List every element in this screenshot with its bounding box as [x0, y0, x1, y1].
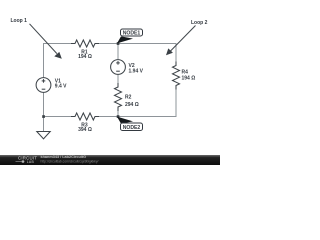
wire: right rail from R4 to bottom-right corner — [175, 87, 177, 118]
resistor R1 — [71, 40, 99, 47]
node NODE2 flag pointer — [117, 117, 133, 124]
junction dot at NODE1 — [117, 42, 120, 45]
voltage source V2 — [111, 60, 126, 75]
wire: middle branch R2 bottom to NODE2 junction — [117, 107, 119, 117]
node NODE2 label box — [121, 123, 143, 131]
svg-text:http://circuitlab.com/circuit/: http://circuitlab.com/circuit/cqe9bigkkk… — [41, 160, 99, 164]
CircuitLab logo — [16, 156, 38, 165]
wire: middle branch NODE1 junction down to V2 top — [117, 44, 119, 61]
wire: bottom rail from ground junction to R3 — [44, 116, 76, 118]
wire: right rail from top-right corner to R4 — [175, 43, 177, 66]
wire: left rail from V1 bottom to ground — [43, 93, 45, 132]
svg-text:NODE1: NODE1 — [123, 31, 141, 37]
svg-text:194 Ω: 194 Ω — [78, 54, 92, 60]
svg-text:Loop 1: Loop 1 — [11, 18, 28, 24]
svg-text:LAB: LAB — [27, 160, 35, 164]
svg-text:NODE2: NODE2 — [123, 125, 141, 131]
svg-text:R2: R2 — [125, 95, 132, 101]
junction dot at NODE2 — [117, 115, 120, 118]
wire: top rail from top-left corner to R1 — [44, 43, 76, 45]
node NODE1 flag pointer — [117, 36, 133, 43]
resistor R4 — [173, 62, 180, 90]
junction dot at ground tee — [42, 115, 45, 118]
wire: top rail from R1 to NODE1 junction — [95, 43, 118, 45]
svg-text:294 Ω: 294 Ω — [125, 102, 139, 108]
voltage source V1 — [36, 78, 51, 93]
svg-text:394 Ω: 394 Ω — [78, 127, 92, 133]
annotation Loop 1 arrow — [11, 18, 62, 59]
node NODE1 label box — [121, 29, 143, 37]
wire: bottom rail from NODE2 junction to bottom-right corner — [118, 116, 177, 118]
resistor R3 — [71, 113, 99, 120]
svg-text:9.4 V: 9.4 V — [55, 84, 67, 90]
wire: bottom rail from R3 to NODE2 junction — [95, 116, 118, 118]
wire: middle branch V2 bottom to R2 top — [117, 74, 119, 87]
wire: left rail from corner down to V1 top — [43, 43, 45, 78]
wire: top rail from NODE1 junction to top-right corner — [118, 43, 177, 45]
ground — [37, 132, 50, 139]
annotation Loop 2 arrow — [166, 20, 208, 55]
resistor R2 — [115, 83, 122, 111]
svg-text:1.94 V: 1.94 V — [129, 68, 144, 74]
svg-text:Loop 2: Loop 2 — [191, 20, 208, 26]
svg-text:194 Ω: 194 Ω — [182, 76, 196, 82]
